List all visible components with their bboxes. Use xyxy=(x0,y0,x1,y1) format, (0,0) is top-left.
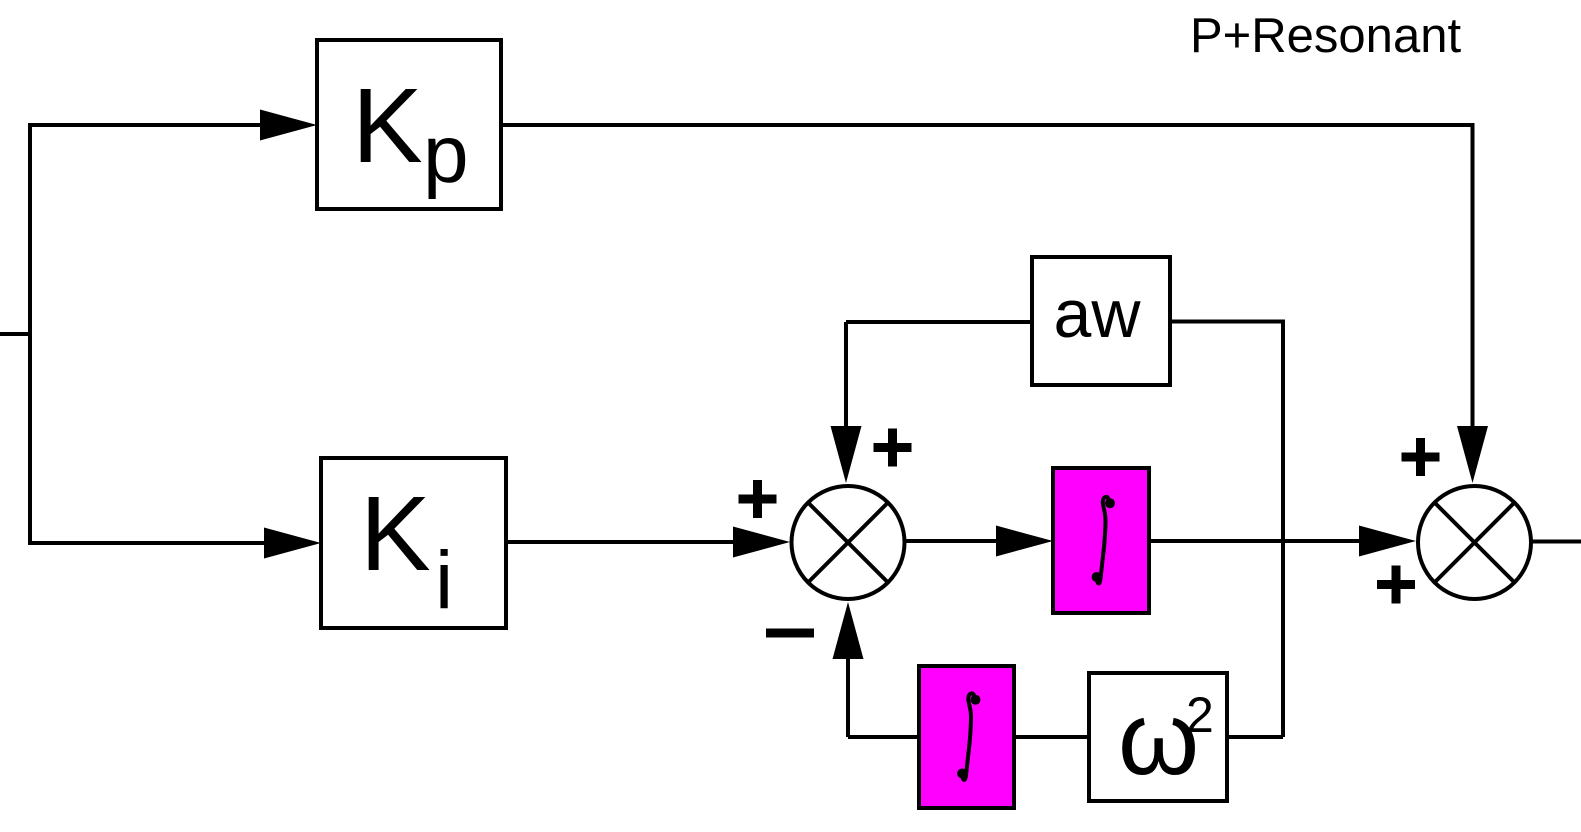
svg-text:p: p xyxy=(423,109,469,200)
svg-text:2: 2 xyxy=(1186,687,1214,743)
svg-text:aw: aw xyxy=(1054,276,1142,352)
svg-text:K: K xyxy=(360,475,431,593)
svg-text:K: K xyxy=(352,67,423,185)
svg-text:i: i xyxy=(435,535,453,626)
svg-text:P+Resonant: P+Resonant xyxy=(1190,9,1461,63)
